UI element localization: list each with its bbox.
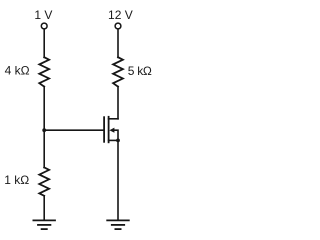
transistor M1 body arrow wire [113, 130, 118, 140]
wire R1 bottom to gate node [43, 87, 45, 131]
wire source to ground [117, 140, 119, 220]
wire 1V terminal to R1 top [43, 29, 45, 57]
svg-text:1 V: 1 V [34, 8, 52, 22]
wire gate (node to gate bar) [44, 129, 103, 131]
node junction dot (source-body tie) [116, 139, 120, 143]
wire R3 bottom to drain [117, 87, 119, 119]
transistor M1 body arrowhead [109, 128, 114, 133]
node junction dot (gate node) [42, 128, 46, 132]
svg-text:4 kΩ: 4 kΩ [5, 63, 30, 77]
resistor R3 5 kOhm [113, 57, 123, 86]
transistor M1 drain stub [109, 118, 118, 120]
terminal circle 12V [115, 23, 121, 29]
transistor M1 NMOS gate bar [103, 117, 105, 142]
transistor M1 source stub [109, 139, 118, 141]
terminal circle 1V [41, 23, 47, 29]
svg-text:12 V: 12 V [108, 8, 133, 22]
ground (right) [107, 220, 129, 229]
wire gate node to R2 top [43, 130, 45, 167]
svg-text:5 kΩ: 5 kΩ [128, 64, 152, 78]
svg-text:1 kΩ: 1 kΩ [4, 173, 29, 187]
transistor M1 NMOS channel bar [108, 117, 110, 143]
ground (left) [33, 220, 55, 229]
resistor R2 1 kOhm [39, 167, 49, 195]
resistor R1 4 kOhm [39, 57, 49, 86]
wire R2 bottom to ground [43, 196, 45, 220]
wire 12V terminal to R3 top [117, 29, 119, 57]
